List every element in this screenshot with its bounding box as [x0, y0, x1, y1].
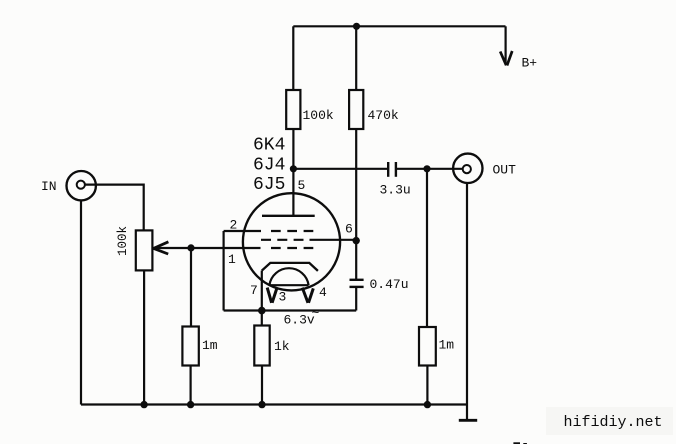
wire 470k top lead: [355, 26, 357, 90]
svg-text:OUT: OUT: [493, 163, 517, 178]
wire IN to pot: [85, 185, 144, 231]
wire pin2 bus: [223, 231, 225, 311]
svg-text:100k: 100k: [116, 226, 130, 256]
tube U1 envelope: [243, 193, 340, 290]
svg-text:4: 4: [319, 285, 327, 300]
node wiper junction: [187, 244, 194, 251]
wire pot bottom lead: [143, 270, 145, 404]
wire left rail from IN: [80, 200, 82, 405]
svg-text:6K4: 6K4: [253, 136, 285, 156]
wire cathode lead pin 7: [261, 271, 263, 311]
tube heater arc: [269, 268, 308, 285]
tube grid row 1 (pin 2): [271, 230, 313, 232]
wire 470k bottom lead to screen: [355, 129, 357, 237]
tube anode plate: [262, 215, 315, 217]
wire output junction down to 1m: [426, 169, 428, 327]
node 1m bottom junction: [424, 401, 431, 408]
connector OUT: [453, 154, 482, 183]
svg-text:~: ~: [312, 306, 320, 321]
svg-text:100k: 100k: [303, 108, 334, 123]
label heater voltage 6.3v~: [284, 306, 320, 328]
wire screen lead to pin 6: [310, 239, 357, 241]
bottom edge text fragment: [513, 442, 526, 444]
resistor 1k cathode: [254, 326, 269, 366]
capacitor 0.47u screen bypass: [350, 280, 364, 287]
svg-text:hifidiy.net: hifidiy.net: [564, 414, 663, 431]
watermark background: [546, 407, 673, 435]
connector IN: [67, 171, 96, 200]
ground: [459, 419, 477, 422]
B+ arrow: [500, 51, 512, 66]
tube grid row 2 (pin 6 screen): [261, 239, 304, 241]
capacitor 3.3u coupling: [388, 162, 396, 177]
svg-text:1m: 1m: [439, 338, 455, 353]
node 1k bottom junction: [258, 401, 265, 408]
wire wiper to grid pin 1: [154, 247, 261, 249]
svg-text:1k: 1k: [274, 339, 290, 354]
svg-text:6J4: 6J4: [253, 155, 285, 175]
heater arrow pin 4: [302, 288, 313, 303]
wire 1k bottom lead: [261, 366, 263, 405]
heater arrow pin 3: [267, 288, 277, 303]
node 1m grid leak bottom junction: [187, 401, 194, 408]
wire anode to coupling cap: [293, 168, 388, 170]
svg-text:6.3v: 6.3v: [284, 313, 315, 328]
node pot bottom junction: [140, 401, 147, 408]
svg-text:6: 6: [345, 222, 353, 237]
svg-text:470k: 470k: [368, 108, 399, 123]
svg-text:1: 1: [228, 252, 236, 267]
node top rail junction: [353, 23, 360, 30]
wire 1m grid leak bottom lead: [190, 366, 192, 405]
wire cathode return bottom of box: [224, 309, 357, 311]
svg-text:3.3u: 3.3u: [380, 183, 411, 198]
svg-text:5: 5: [298, 178, 306, 193]
svg-text:1m: 1m: [202, 338, 218, 353]
wire 100k bottom lead to anode: [292, 129, 294, 216]
potentiometer wiper arrow: [154, 242, 169, 254]
tube heater chord: [269, 284, 308, 286]
svg-text:3: 3: [279, 290, 287, 305]
wire 1k cathode resistor top lead: [261, 311, 263, 326]
resistor 1m output load: [419, 327, 436, 366]
wire bypass cap bottom: [355, 287, 357, 311]
wire 100k top lead: [292, 26, 294, 90]
wire top supply rail: [293, 25, 505, 27]
resistor 100k plate load: [286, 90, 300, 129]
potentiometer 100k body: [136, 230, 153, 270]
wire pin2 lead: [224, 230, 261, 232]
wire 1m bottom lead: [426, 366, 428, 405]
svg-text:7: 7: [250, 283, 258, 298]
tube cathode: [262, 263, 318, 271]
node cathode junction: [258, 307, 266, 315]
svg-text:IN: IN: [41, 179, 57, 194]
wire screen to bypass cap: [355, 241, 357, 280]
node screen junction pin 6: [353, 237, 360, 244]
resistor 470k screen feed: [349, 90, 363, 129]
wire wiper junction down to 1m: [190, 248, 192, 327]
svg-text:0.47u: 0.47u: [370, 277, 409, 292]
tube grid row 3 (pin 1 control grid): [271, 247, 313, 249]
wire B+ stem: [505, 26, 507, 64]
resistor 1m grid leak: [182, 327, 198, 366]
wire cap to OUT: [396, 168, 463, 170]
node anode junction: [290, 165, 297, 172]
wire bottom ground rail: [81, 403, 467, 405]
wire OUT to ground: [466, 182, 468, 420]
svg-text:6J5: 6J5: [253, 175, 285, 195]
node output junction: [423, 165, 430, 172]
svg-text:2: 2: [230, 218, 238, 233]
svg-text:B+: B+: [522, 56, 538, 71]
